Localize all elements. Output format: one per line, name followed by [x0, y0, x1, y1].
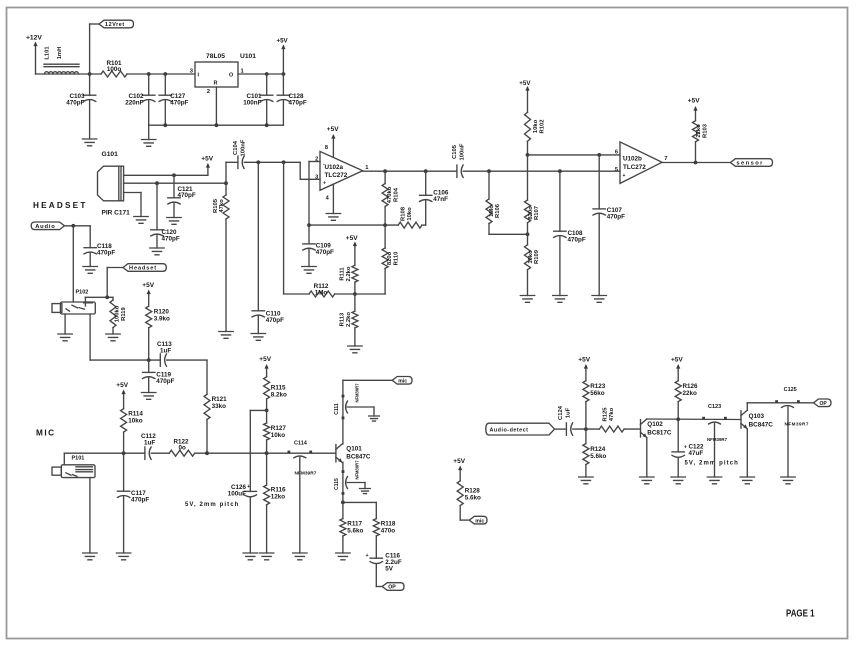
- svg-text:R111: R111: [339, 267, 345, 281]
- svg-text:33ko: 33ko: [212, 403, 227, 410]
- svg-text:NFM39R7: NFM39R7: [785, 421, 809, 426]
- svg-text:470pF: 470pF: [178, 192, 196, 199]
- svg-text:R114: R114: [128, 411, 143, 418]
- svg-text:47ko: 47ko: [609, 407, 615, 421]
- svg-text:+: +: [247, 484, 250, 490]
- svg-text:1Mo: 1Mo: [315, 289, 328, 296]
- svg-text:R118: R118: [381, 520, 396, 527]
- svg-text:470pF: 470pF: [568, 236, 586, 243]
- svg-text:R125: R125: [602, 407, 608, 422]
- svg-text:P102: P102: [76, 290, 89, 296]
- svg-text:+: +: [623, 173, 626, 179]
- svg-text:100nF: 100nF: [460, 143, 466, 160]
- svg-text:G101: G101: [102, 151, 119, 158]
- svg-text:+5V: +5V: [327, 126, 339, 133]
- svg-text:C115: C115: [334, 478, 340, 490]
- svg-text:100o: 100o: [107, 66, 122, 73]
- svg-text:NFM39R7: NFM39R7: [295, 471, 317, 477]
- svg-text:PIR C171: PIR C171: [102, 210, 131, 217]
- svg-text:sensor: sensor: [736, 161, 763, 167]
- svg-text:NFM39R7: NFM39R7: [707, 437, 728, 442]
- svg-text:R106: R106: [495, 203, 501, 218]
- svg-text:470pF: 470pF: [162, 236, 180, 243]
- svg-text:2: 2: [315, 156, 318, 162]
- svg-text:100ko: 100ko: [114, 305, 120, 322]
- svg-text:+5V: +5V: [519, 80, 531, 87]
- svg-text:47ko: 47ko: [219, 199, 225, 213]
- svg-text:C124: C124: [558, 405, 564, 420]
- svg-text:R121: R121: [212, 396, 228, 403]
- svg-text:+5V: +5V: [116, 382, 128, 389]
- svg-text:R103: R103: [702, 123, 708, 138]
- svg-text:10ko: 10ko: [271, 432, 286, 439]
- svg-text:22ko: 22ko: [683, 390, 698, 397]
- svg-text:C114: C114: [294, 441, 308, 447]
- svg-text:+5V: +5V: [142, 282, 154, 289]
- svg-text:R127: R127: [271, 425, 287, 432]
- svg-text:12ko: 12ko: [271, 494, 286, 501]
- svg-text:C105: C105: [452, 144, 458, 159]
- svg-text:R124: R124: [590, 446, 606, 453]
- svg-text:R102: R102: [540, 119, 546, 134]
- svg-text:+5V: +5V: [277, 38, 289, 45]
- svg-text:5V, 2mm pitch: 5V, 2mm pitch: [685, 461, 739, 467]
- svg-text:NFM39R7: NFM39R7: [354, 383, 359, 403]
- svg-text:1uF: 1uF: [144, 439, 155, 446]
- svg-text:8: 8: [325, 145, 328, 151]
- svg-text:2: 2: [207, 89, 210, 95]
- svg-text:Q102: Q102: [647, 421, 663, 428]
- svg-text:820o: 820o: [387, 251, 393, 265]
- svg-text:+5V: +5V: [578, 357, 590, 364]
- svg-text:PAGE 1: PAGE 1: [786, 608, 815, 620]
- svg-text:5V, 2mm pitch: 5V, 2mm pitch: [185, 502, 239, 508]
- svg-text:0o: 0o: [179, 445, 187, 452]
- svg-text:1Mo: 1Mo: [489, 205, 495, 217]
- svg-text:6: 6: [615, 149, 618, 155]
- svg-text:5.6ko: 5.6ko: [590, 453, 606, 460]
- svg-text:5.6ko: 5.6ko: [347, 527, 363, 534]
- svg-text:mic: mic: [475, 518, 484, 524]
- svg-text:R126: R126: [683, 383, 699, 390]
- svg-text:U101: U101: [240, 53, 256, 60]
- svg-text:470pF: 470pF: [66, 100, 84, 107]
- svg-text:Headset: Headset: [129, 266, 157, 272]
- svg-text:R104: R104: [394, 187, 400, 202]
- svg-text:470pF: 470pF: [97, 250, 115, 257]
- svg-text:470ko: 470ko: [387, 186, 393, 203]
- svg-text:HEADSET: HEADSET: [33, 201, 88, 210]
- svg-text:C111: C111: [334, 403, 340, 415]
- svg-text:R115: R115: [271, 384, 286, 391]
- svg-text:78L05: 78L05: [206, 53, 225, 60]
- svg-text:470pF: 470pF: [316, 249, 334, 256]
- svg-text:220nF: 220nF: [125, 100, 143, 107]
- svg-text:+5V: +5V: [346, 235, 358, 242]
- svg-text:+5V: +5V: [259, 356, 271, 363]
- svg-text:12Vret: 12Vret: [105, 22, 125, 28]
- svg-text:470pF: 470pF: [170, 100, 188, 107]
- svg-text:C123: C123: [708, 404, 721, 410]
- svg-text:L101: L101: [45, 46, 51, 60]
- svg-text:MIC: MIC: [36, 429, 56, 438]
- svg-text:R109: R109: [534, 249, 540, 264]
- svg-text:Q103: Q103: [749, 413, 765, 420]
- svg-text:8.2ko: 8.2ko: [271, 391, 287, 398]
- svg-text:mic: mic: [398, 379, 407, 385]
- svg-text:7: 7: [664, 156, 667, 162]
- svg-text:O: O: [229, 73, 233, 79]
- svg-text:+5V: +5V: [453, 458, 465, 465]
- svg-text:OP: OP: [388, 585, 396, 591]
- svg-text:R128: R128: [465, 487, 481, 494]
- svg-text:5: 5: [615, 167, 618, 173]
- svg-text:1uF: 1uF: [566, 407, 572, 418]
- svg-text:TLC272: TLC272: [325, 172, 348, 179]
- svg-text:TLC272: TLC272: [623, 164, 646, 171]
- svg-text:Audio-detect: Audio-detect: [490, 427, 529, 433]
- svg-text:R117: R117: [347, 520, 362, 527]
- svg-text:BC847C: BC847C: [346, 454, 371, 461]
- svg-text:Q101: Q101: [346, 445, 362, 452]
- svg-text:22ko: 22ko: [696, 124, 702, 138]
- svg-text:R120: R120: [154, 309, 170, 316]
- svg-text:470pF: 470pF: [131, 497, 149, 504]
- svg-text:47nF: 47nF: [433, 196, 448, 203]
- svg-text:BC817C: BC817C: [647, 429, 672, 436]
- svg-text:U102b: U102b: [623, 156, 642, 163]
- svg-text:R113: R113: [339, 312, 345, 326]
- svg-text:R108: R108: [400, 206, 406, 221]
- svg-text:+: +: [323, 181, 326, 187]
- svg-text:47uF: 47uF: [689, 450, 704, 457]
- svg-text:3.9ko: 3.9ko: [154, 316, 170, 323]
- svg-text:P101: P101: [72, 456, 85, 462]
- svg-text:OP: OP: [820, 401, 828, 407]
- svg-text:C125: C125: [784, 387, 797, 393]
- svg-text:+5V: +5V: [688, 98, 700, 105]
- svg-text:100uF: 100uF: [228, 491, 246, 498]
- svg-text:R116: R116: [271, 487, 286, 494]
- svg-text:U102a: U102a: [325, 164, 344, 171]
- svg-text:2.2ko: 2.2ko: [346, 266, 352, 281]
- svg-text:1mH: 1mH: [57, 47, 63, 60]
- svg-text:R107: R107: [534, 206, 540, 220]
- svg-text:R123: R123: [590, 383, 606, 390]
- svg-text:Audio: Audio: [35, 224, 55, 230]
- svg-text:470o: 470o: [381, 527, 396, 534]
- svg-text:R119: R119: [121, 306, 127, 320]
- svg-text:470pF: 470pF: [266, 317, 284, 324]
- svg-text:100nF: 100nF: [241, 139, 247, 156]
- svg-text:R110: R110: [394, 251, 400, 265]
- svg-text:+5V: +5V: [201, 156, 213, 163]
- svg-text:+: +: [366, 553, 369, 559]
- svg-text:R: R: [214, 81, 218, 87]
- svg-text:NFM39R7: NFM39R7: [354, 460, 359, 480]
- svg-text:10ko: 10ko: [407, 207, 413, 221]
- svg-text:10ko: 10ko: [128, 418, 143, 425]
- svg-text:3: 3: [315, 175, 318, 181]
- svg-text:BC847C: BC847C: [749, 421, 774, 428]
- svg-text:10ko: 10ko: [533, 119, 539, 133]
- svg-text:5.6ko: 5.6ko: [465, 494, 481, 501]
- svg-text:56ko: 56ko: [590, 390, 605, 397]
- svg-text:+12V: +12V: [26, 35, 42, 42]
- svg-text:470pF: 470pF: [289, 100, 307, 107]
- svg-text:5V: 5V: [385, 566, 394, 573]
- svg-text:C104: C104: [233, 140, 239, 155]
- svg-text:2.2ko: 2.2ko: [346, 312, 352, 327]
- svg-text:1uF: 1uF: [160, 348, 171, 355]
- svg-text:820o: 820o: [528, 206, 534, 220]
- svg-text:470pF: 470pF: [156, 378, 174, 385]
- svg-text:10ko: 10ko: [528, 250, 534, 264]
- svg-text:100nF: 100nF: [243, 100, 261, 107]
- svg-text:+5V: +5V: [671, 357, 683, 364]
- svg-text:470pF: 470pF: [607, 214, 625, 221]
- svg-text:+: +: [684, 445, 687, 451]
